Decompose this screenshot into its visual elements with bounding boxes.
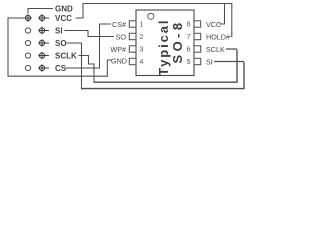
- svg-text:SI: SI: [206, 57, 213, 66]
- svg-text:7: 7: [187, 34, 191, 41]
- svg-text:Typical: Typical: [156, 19, 171, 76]
- svg-text:GND: GND: [111, 56, 127, 65]
- svg-text:SO-8: SO-8: [170, 20, 185, 64]
- svg-text:3: 3: [140, 47, 144, 54]
- svg-text:CS: CS: [55, 64, 67, 73]
- svg-text:SI: SI: [55, 26, 63, 35]
- svg-text:SO: SO: [116, 32, 127, 41]
- svg-text:VCC: VCC: [206, 20, 221, 29]
- svg-text:VCC: VCC: [55, 14, 72, 23]
- svg-text:SO: SO: [55, 39, 67, 48]
- svg-text:8: 8: [187, 22, 191, 29]
- svg-text:WP#: WP#: [110, 45, 126, 54]
- svg-text:2: 2: [140, 34, 144, 41]
- svg-text:6: 6: [187, 47, 191, 54]
- svg-text:1: 1: [140, 22, 144, 29]
- svg-text:4: 4: [140, 59, 144, 66]
- svg-text:GND: GND: [55, 4, 73, 13]
- svg-text:HOLD#: HOLD#: [206, 32, 230, 41]
- svg-text:SCLK: SCLK: [55, 51, 77, 60]
- svg-text:SCLK: SCLK: [206, 45, 225, 54]
- svg-text:CS#: CS#: [112, 20, 126, 29]
- svg-text:5: 5: [187, 59, 191, 66]
